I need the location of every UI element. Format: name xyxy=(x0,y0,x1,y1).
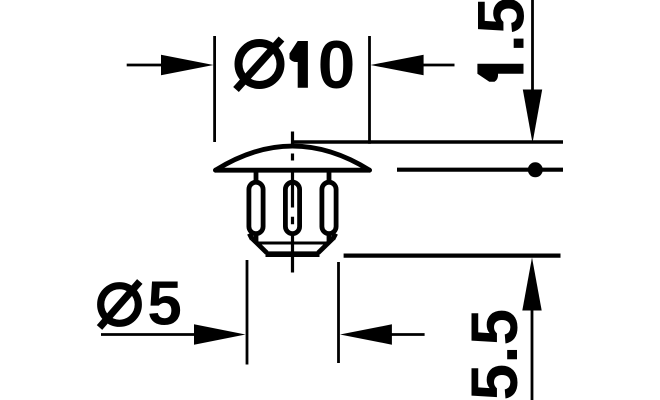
dim Ø10 left extension line xyxy=(213,36,216,142)
svg-text:5: 5 xyxy=(147,270,181,339)
left rib xyxy=(249,182,263,233)
cup inner chamfer line xyxy=(256,242,329,245)
dim Ø10 value 10 xyxy=(290,41,308,88)
dim 5.5 bottom reference line xyxy=(344,253,561,257)
dim 1.5 reference dot xyxy=(528,162,543,177)
dim Ø5 diameter symbol xyxy=(100,282,140,328)
dim 1.5 dimension line with down arrow xyxy=(523,0,542,143)
cup right wall xyxy=(333,234,336,240)
dim Ø5 left extension line xyxy=(246,260,249,365)
dome cap xyxy=(216,146,370,170)
dim Ø5 left arrow xyxy=(101,324,246,344)
dim 1.5 top surface reference line xyxy=(293,140,563,144)
svg-text:0: 0 xyxy=(318,28,356,103)
right rib xyxy=(322,182,336,233)
dim Ø5 right arrow xyxy=(340,324,425,344)
centerline xyxy=(291,132,294,273)
svg-text:5.5: 5.5 xyxy=(457,309,531,400)
center rib xyxy=(285,182,299,233)
left rib stub top xyxy=(254,170,259,181)
dim 1.5 value xyxy=(464,0,538,82)
dim Ø10 diameter symbol xyxy=(236,39,282,90)
dim 5.5 dimension line with up arrow xyxy=(522,258,541,400)
cup left wall xyxy=(249,234,252,240)
dim Ø5 right extension line xyxy=(337,262,340,363)
right rib stub bottom xyxy=(327,236,332,244)
right rib stub top xyxy=(327,170,332,181)
cup right chamfer xyxy=(318,239,333,253)
dim Ø10 right extension line xyxy=(368,36,371,144)
svg-text:.5: .5 xyxy=(464,0,538,52)
cup left chamfer xyxy=(252,239,266,253)
cup bottom line xyxy=(266,251,320,257)
dim Ø10 left arrow xyxy=(127,55,214,75)
left rib stub bottom xyxy=(254,236,259,244)
dim 1.5 rim surface reference line xyxy=(397,168,563,172)
dim Ø10 right arrow xyxy=(371,55,455,75)
